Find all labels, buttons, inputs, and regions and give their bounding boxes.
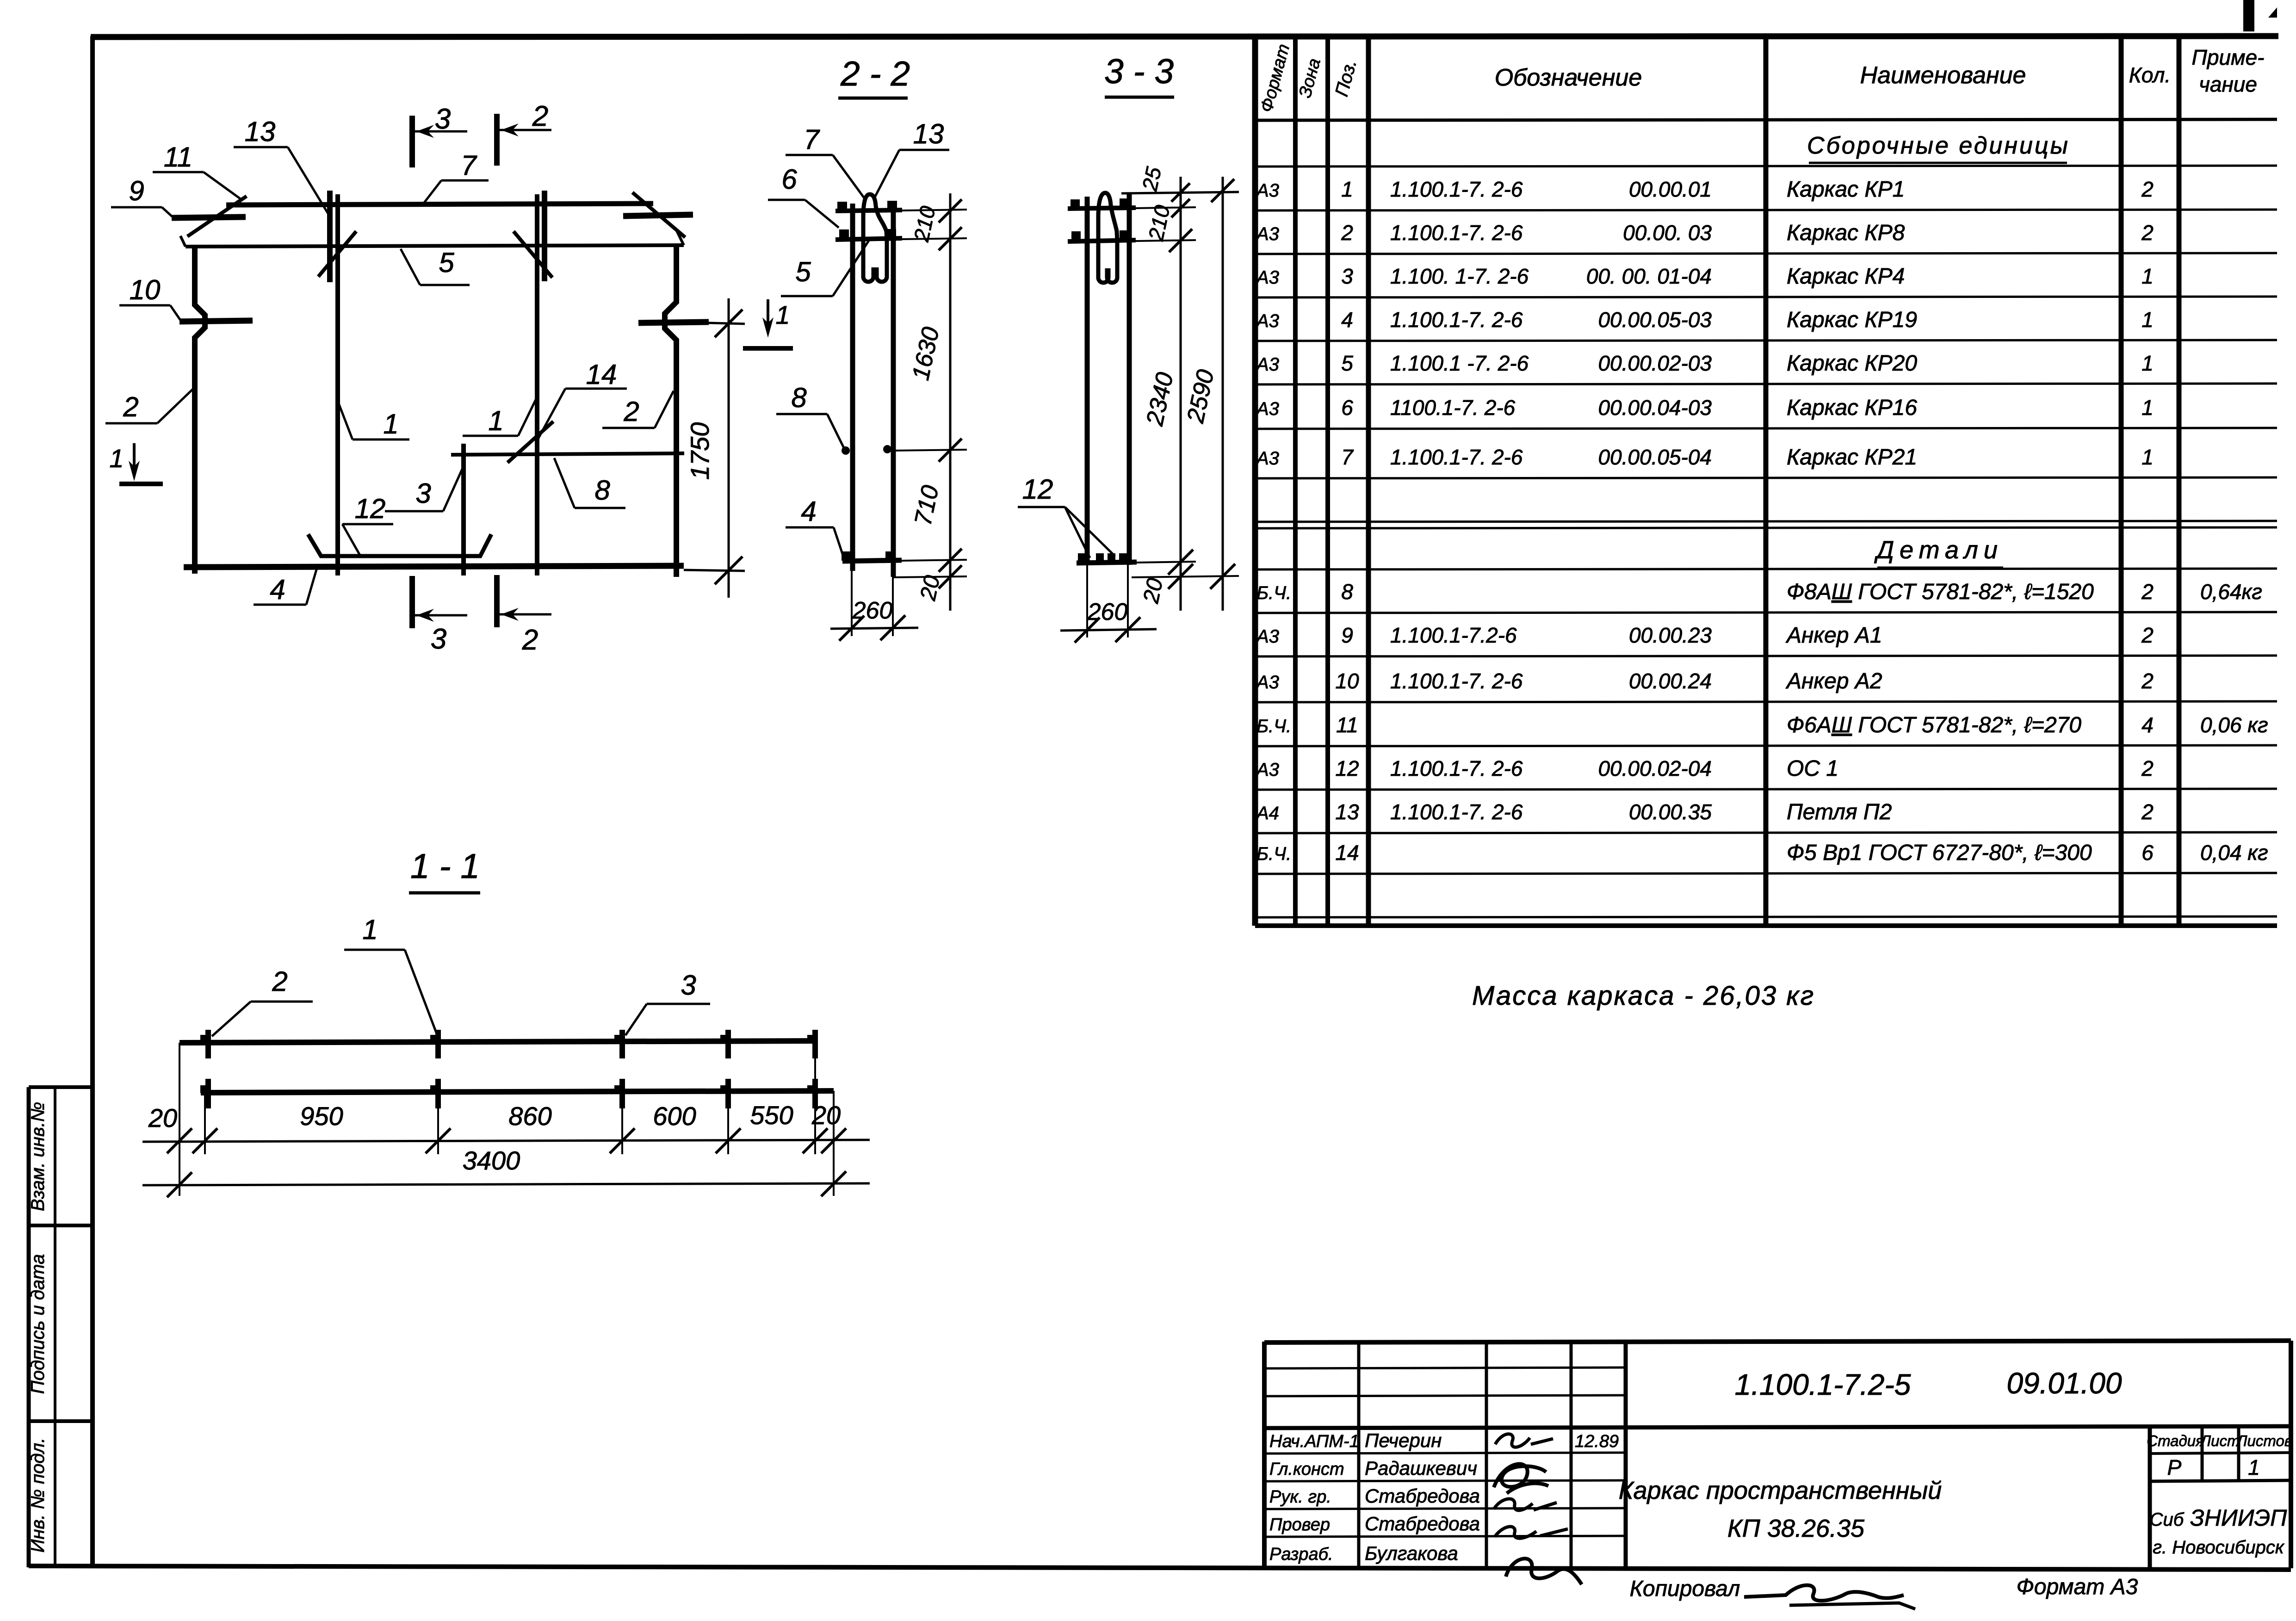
svg-text:1 - 1: 1 - 1: [410, 847, 480, 885]
copier signature: [1744, 1585, 1915, 1609]
svg-text:2: 2: [2141, 756, 2154, 780]
1-1 extension lines: [179, 1041, 834, 1196]
svg-text:0,04 кг: 0,04 кг: [2200, 841, 2268, 865]
svg-text:20: 20: [1139, 576, 1168, 606]
svg-text:14: 14: [1335, 841, 1359, 865]
svg-text:Анкер А2: Анкер А2: [1785, 669, 1882, 693]
svg-text:1.100.1-7. 2-6: 1.100.1-7. 2-6: [1390, 308, 1523, 332]
svg-text:А3: А3: [1256, 672, 1279, 693]
main view: right bar pos 2: [665, 245, 676, 577]
specification table grid: [1255, 36, 2277, 926]
table header labels: [1257, 42, 2265, 115]
leader label 10: [119, 274, 180, 320]
svg-text:А3: А3: [1256, 224, 1279, 244]
leader label 1-1 pos3: [625, 970, 710, 1035]
svg-text:Подпись и дата: Подпись и дата: [28, 1254, 48, 1394]
svg-text:00.00.24: 00.00.24: [1629, 669, 1712, 693]
leader label 1 internal left: [339, 403, 409, 439]
title block horizontals: [1264, 1367, 2291, 1537]
svg-text:13: 13: [1335, 800, 1359, 824]
svg-text:1.100.1 -7. 2-6: 1.100.1 -7. 2-6: [1390, 351, 1529, 375]
svg-text:2: 2: [272, 966, 287, 997]
svg-text:Петля П2: Петля П2: [1787, 800, 1892, 824]
svg-text:6: 6: [1341, 396, 1353, 420]
signatures: [1494, 1434, 1582, 1584]
table row pos 1: [1256, 177, 2154, 202]
svg-text:Б.Ч.: Б.Ч.: [1256, 583, 1291, 603]
leader label 2-2 pos5: [781, 241, 869, 296]
caption Сборочные единицы: [1807, 132, 2070, 163]
2-2 top plate: [835, 210, 902, 211]
svg-text:Листов: Листов: [2236, 1432, 2292, 1449]
view 1-1 title: [409, 847, 480, 893]
svg-text:12: 12: [1022, 474, 1053, 505]
svg-text:Гл.конст: Гл.конст: [1269, 1460, 1344, 1479]
leader label 4: [254, 568, 317, 605]
title block verticals: [1359, 1342, 2239, 1568]
svg-text:1.100. 1-7. 2-6: 1.100. 1-7. 2-6: [1390, 264, 1529, 288]
svg-text:Провер: Провер: [1269, 1515, 1330, 1534]
svg-text:00.00.02-04: 00.00.02-04: [1598, 756, 1712, 780]
svg-text:260: 260: [852, 597, 893, 624]
left box top line: [29, 1085, 93, 1089]
2-2 second plate: [835, 238, 902, 240]
table row pos 7: [1256, 445, 2154, 470]
svg-text:00.00.04-03: 00.00.04-03: [1598, 396, 1712, 420]
title block outer frame: [1264, 1341, 2291, 1568]
svg-text:25: 25: [1137, 165, 1166, 193]
section mark 2 bottom: [497, 575, 551, 656]
svg-text:8: 8: [1341, 580, 1353, 604]
leader label 2 right: [602, 391, 674, 428]
svg-text:2: 2: [2141, 669, 2154, 693]
svg-text:3 - 3: 3 - 3: [1104, 52, 1174, 91]
svg-text:1: 1: [362, 914, 378, 945]
main view: slash pos 14: [507, 421, 553, 463]
svg-text:20: 20: [916, 573, 945, 603]
svg-text:5: 5: [1341, 351, 1353, 375]
svg-text:00.00.01: 00.00.01: [1629, 177, 1712, 201]
section mark 1 right: [743, 299, 793, 348]
pos5 right end tick: [676, 230, 684, 245]
2-2 right bar: [891, 202, 896, 577]
main view: spacer OC1 pos 12: [308, 534, 491, 556]
svg-text:5: 5: [439, 247, 454, 278]
3-3 loop hook marks on plate: [1078, 553, 1086, 561]
1-1 transverse bar 3: [614, 1030, 622, 1108]
leader label 2 left: [105, 389, 193, 423]
svg-text:260: 260: [1087, 599, 1128, 625]
svg-text:00.00.05-04: 00.00.05-04: [1598, 445, 1712, 469]
svg-text:13: 13: [913, 118, 944, 149]
svg-text:Каркас пространственный: Каркас пространственный: [1619, 1477, 1942, 1504]
svg-text:1: 1: [2141, 396, 2154, 420]
main view: anchor pos 9 right: [623, 215, 693, 216]
main view: top bar pos 7: [226, 204, 653, 205]
title block row Провер: [1269, 1513, 1480, 1534]
frame top border: [91, 36, 2278, 37]
svg-text:6: 6: [781, 164, 797, 195]
svg-text:1: 1: [2248, 1455, 2260, 1479]
1-1 transverse bar 2: [430, 1030, 438, 1108]
svg-text:14: 14: [586, 359, 617, 390]
svg-text:Булгакова: Булгакова: [1365, 1542, 1458, 1564]
svg-text:2: 2: [1341, 221, 1353, 245]
corner mark top right: [2249, 0, 2277, 31]
2-2 left bar: [850, 204, 855, 571]
svg-text:А3: А3: [1256, 311, 1279, 331]
svg-text:20: 20: [148, 1103, 177, 1132]
svg-text:5: 5: [795, 256, 811, 287]
svg-text:Копировал: Копировал: [1630, 1577, 1740, 1601]
svg-text:Взам. инв.№: Взам. инв.№: [28, 1102, 48, 1211]
svg-text:3: 3: [435, 103, 451, 135]
leader label 2-2 pos13: [874, 118, 949, 198]
svg-text:2: 2: [522, 624, 538, 656]
svg-text:3: 3: [415, 478, 431, 509]
svg-text:Ф6АШ ГОСТ 5781-82*, ℓ=270: Ф6АШ ГОСТ 5781-82*, ℓ=270: [1787, 713, 2081, 737]
svg-text:Каркас КР4: Каркас КР4: [1787, 264, 1905, 289]
table row pos 5: [1256, 351, 2154, 376]
svg-text:А3: А3: [1256, 448, 1279, 469]
svg-text:2: 2: [2141, 177, 2154, 201]
weld slash left internal: [318, 231, 356, 277]
svg-text:7: 7: [804, 124, 820, 155]
svg-text:00. 00. 01-04: 00. 00. 01-04: [1586, 264, 1712, 288]
svg-text:00.00.05-03: 00.00.05-03: [1598, 308, 1712, 332]
svg-text:А3: А3: [1256, 354, 1279, 375]
main view: wire pos 8: [451, 453, 684, 455]
svg-text:1.100.1-7. 2-6: 1.100.1-7. 2-6: [1390, 669, 1523, 693]
svg-text:А3: А3: [1256, 399, 1279, 419]
left margin boxes outer edge: [27, 1087, 31, 1567]
svg-text:7: 7: [1341, 445, 1354, 469]
leader label 1-1 pos2: [212, 966, 313, 1036]
2-2 dimension chain 210/1630/710/20: [893, 193, 967, 611]
organisation СибЗНИИЭП: [2150, 1505, 2288, 1558]
svg-text:1: 1: [775, 300, 790, 329]
svg-text:1100.1-7. 2-6: 1100.1-7. 2-6: [1390, 396, 1516, 420]
2-2 wire dots pos8: [842, 446, 850, 455]
leader label 3-3 pos12: [1018, 474, 1115, 558]
svg-text:2: 2: [2141, 800, 2154, 824]
leader label 2-2 pos7: [786, 124, 866, 200]
svg-text:9: 9: [129, 175, 144, 206]
pos5 left end tick: [180, 236, 186, 247]
main view: anchor pos 10 right: [638, 322, 709, 323]
leader label 3: [385, 468, 463, 511]
svg-text:А3: А3: [1256, 626, 1279, 647]
svg-text:г. Новосибирск: г. Новосибирск: [2153, 1537, 2285, 1558]
svg-text:1.100.1-7. 2-6: 1.100.1-7. 2-6: [1390, 445, 1523, 469]
table row pos 2: [1256, 221, 2154, 245]
svg-text:Нач.АПМ-1: Нач.АПМ-1: [1269, 1432, 1359, 1451]
svg-text:А3: А3: [1256, 267, 1279, 288]
svg-text:Б.Ч.: Б.Ч.: [1256, 716, 1291, 736]
svg-text:9: 9: [1341, 623, 1353, 647]
svg-text:600: 600: [653, 1101, 696, 1131]
3-3 lifting loop pos13: [1098, 193, 1117, 241]
1-1 top bar: [179, 1041, 815, 1043]
svg-text:Лист: Лист: [2200, 1432, 2240, 1449]
svg-text:1: 1: [109, 444, 124, 473]
svg-text:Кол.: Кол.: [2129, 63, 2171, 87]
svg-text:2: 2: [623, 396, 639, 427]
svg-text:Каркас КР8: Каркас КР8: [1787, 221, 1905, 245]
svg-text:10: 10: [130, 274, 161, 305]
leader label 2-2 pos8: [776, 382, 844, 448]
svg-text:00.00.02-03: 00.00.02-03: [1598, 351, 1712, 375]
section mark 1 left: [109, 443, 163, 484]
svg-text:2: 2: [2141, 580, 2154, 604]
main view: top wire pos 5: [186, 245, 684, 247]
1-1 transverse bar 5: [807, 1030, 815, 1108]
leader label 8: [554, 458, 625, 508]
2-2 anchor squares: [837, 202, 847, 211]
leader label 11: [153, 142, 241, 199]
frame left border: [90, 36, 95, 1567]
svg-text:6: 6: [2141, 841, 2154, 865]
svg-text:4: 4: [2141, 713, 2154, 737]
svg-text:2: 2: [123, 391, 138, 422]
table row pos 13: [1256, 800, 2154, 824]
weld slash right internal: [514, 231, 552, 278]
svg-text:20: 20: [811, 1101, 841, 1130]
table row pos 9: [1256, 623, 2154, 648]
svg-text:10: 10: [1335, 669, 1359, 693]
svg-text:Рук. гр.: Рук. гр.: [1269, 1487, 1331, 1507]
svg-text:0,06 кг: 0,06 кг: [2200, 713, 2268, 737]
svg-text:2: 2: [532, 100, 548, 132]
svg-text:550: 550: [750, 1101, 793, 1130]
1-1 dimension row 20/950/860/600/550/20: [142, 1101, 870, 1153]
title block row Гл.конст: [1269, 1457, 1477, 1479]
table row pos 12: [1256, 756, 2154, 781]
3-3 second plate: [1068, 240, 1136, 241]
leader label 13: [234, 116, 330, 217]
svg-text:13: 13: [245, 116, 276, 147]
leader label 12: [342, 493, 393, 555]
svg-text:3: 3: [1341, 264, 1353, 288]
3-3 bottom plate pos4: [1077, 562, 1137, 563]
section mark 3 top: [412, 103, 467, 167]
table row pos 14: [1256, 841, 2268, 865]
leader label 14: [536, 359, 627, 443]
svg-text:12: 12: [355, 493, 386, 524]
title block row Разраб.: [1269, 1542, 1458, 1564]
svg-text:1: 1: [1341, 177, 1353, 201]
main view: bar pos 3: [461, 444, 466, 575]
svg-text:8: 8: [791, 382, 807, 413]
svg-text:09.01.00: 09.01.00: [2006, 1367, 2122, 1400]
svg-text:Стадия: Стадия: [2147, 1432, 2204, 1449]
1-1 transverse bar 4: [720, 1030, 728, 1108]
svg-text:12: 12: [1335, 756, 1359, 780]
svg-text:12.89: 12.89: [1575, 1432, 1619, 1451]
left box divider 2: [29, 1419, 93, 1423]
svg-text:3: 3: [431, 623, 446, 655]
stage header Стадия Лист Листов: [2147, 1432, 2292, 1449]
svg-text:Каркас КР16: Каркас КР16: [1787, 396, 1917, 420]
svg-text:Наименование: Наименование: [1860, 62, 2026, 89]
svg-text:Детали: Детали: [1874, 536, 2003, 564]
2-2 lifting loop pos13: [863, 194, 887, 241]
1-1 transverse bar 1: [200, 1030, 208, 1108]
main view: loop leg pos 13 left: [327, 191, 333, 282]
svg-text:1.100.1-7. 2-6: 1.100.1-7. 2-6: [1390, 756, 1523, 780]
svg-text:1.100.1-7.2-5: 1.100.1-7.2-5: [1735, 1368, 1911, 1401]
svg-text:Стабредова: Стабредова: [1365, 1485, 1480, 1507]
svg-text:Каркас КР20: Каркас КР20: [1787, 351, 1917, 376]
title block row Нач.АПМ-1: [1269, 1429, 1619, 1451]
svg-text:1750: 1750: [685, 422, 714, 480]
leader label 1 internal right: [463, 399, 536, 436]
3-3 top plate: [1068, 208, 1136, 209]
leader label 9: [111, 175, 172, 217]
dimension 1750: [684, 298, 745, 598]
leader label 5: [401, 247, 470, 285]
svg-text:00.00.35: 00.00.35: [1629, 800, 1712, 824]
left box divider 1: [29, 1224, 93, 1227]
svg-text:А4: А4: [1256, 803, 1279, 823]
svg-text:ОС 1: ОС 1: [1787, 756, 1838, 781]
svg-text:А3: А3: [1256, 760, 1279, 780]
table row pos 3: [1256, 264, 2154, 289]
table row pos 6: [1256, 396, 2154, 420]
svg-text:чание: чание: [2199, 72, 2257, 96]
svg-text:7: 7: [461, 150, 477, 181]
3-3 dimension 260: [1060, 565, 1157, 643]
title block row Рук. гр.: [1269, 1485, 1480, 1507]
svg-text:Инв. № подл.: Инв. № подл.: [28, 1438, 48, 1553]
svg-text:1.100.1-7. 2-6: 1.100.1-7. 2-6: [1390, 221, 1523, 245]
section mark 2 top: [497, 100, 551, 166]
svg-text:Сборочные единицы: Сборочные единицы: [1807, 132, 2070, 159]
svg-text:А3: А3: [1256, 180, 1279, 201]
1-1 bottom bar: [201, 1091, 834, 1093]
svg-text:1.100.1-7. 2-6: 1.100.1-7. 2-6: [1390, 177, 1523, 201]
svg-text:Приме-: Приме-: [2192, 45, 2265, 69]
svg-text:Обозначение: Обозначение: [1495, 64, 1642, 91]
svg-text:2: 2: [2141, 221, 2154, 245]
svg-text:11: 11: [1336, 713, 1358, 737]
svg-text:Ф5 Вр1 ГОСТ 6727-80*, ℓ=300: Ф5 Вр1 ГОСТ 6727-80*, ℓ=300: [1787, 841, 2092, 865]
table row pos 4: [1256, 308, 2154, 332]
caption Детали: [1874, 536, 2003, 568]
left margin boxes divider: [54, 1087, 56, 1567]
svg-text:4: 4: [270, 574, 285, 605]
3-3 right bar: [1127, 193, 1132, 565]
svg-text:950: 950: [300, 1101, 343, 1131]
svg-text:2: 2: [2141, 623, 2154, 647]
svg-text:860: 860: [508, 1101, 551, 1131]
svg-text:1: 1: [2141, 351, 2154, 375]
svg-text:Каркас КР1: Каркас КР1: [1787, 177, 1905, 202]
section mark 3 bottom: [412, 576, 467, 655]
svg-text:4: 4: [1341, 308, 1353, 332]
main view: slash pos 11 right: [632, 192, 685, 237]
main view: internal bar pos 1 left: [335, 194, 340, 575]
1-1 dimension 3400: [142, 1146, 870, 1197]
main view: bottom bar pos 4: [184, 566, 684, 567]
svg-text:Р: Р: [2167, 1455, 2182, 1479]
svg-text:00.00.23: 00.00.23: [1629, 623, 1712, 647]
main view: anchor pos 10 left: [179, 321, 253, 322]
svg-text:8: 8: [594, 475, 610, 506]
svg-text:00.00. 03: 00.00. 03: [1623, 221, 1712, 245]
svg-text:1: 1: [2141, 445, 2154, 469]
svg-text:1.100.1-7. 2-6: 1.100.1-7. 2-6: [1390, 800, 1523, 824]
section 2-2 title: [838, 54, 910, 98]
svg-text:11: 11: [164, 142, 192, 173]
svg-text:1: 1: [488, 405, 503, 436]
svg-text:Б.Ч.: Б.Ч.: [1256, 844, 1291, 864]
table row pos 11: [1256, 713, 2268, 737]
svg-text:Масса каркаса - 26,03 кг: Масса каркаса - 26,03 кг: [1472, 981, 1815, 1011]
svg-text:Каркас КР19: Каркас КР19: [1787, 308, 1917, 332]
svg-text:Стабредова: Стабредова: [1365, 1513, 1480, 1534]
svg-text:1: 1: [383, 408, 398, 439]
svg-text:Радашкевич: Радашкевич: [1365, 1457, 1477, 1479]
svg-text:Печерин: Печерин: [1365, 1429, 1442, 1451]
leader label 2-2 pos6: [768, 164, 839, 228]
svg-text:Разраб.: Разраб.: [1269, 1545, 1333, 1564]
svg-text:4: 4: [801, 496, 816, 527]
svg-text:1: 1: [2141, 264, 2154, 288]
leader label 7: [422, 150, 489, 205]
2-2 dimension 260: [830, 571, 918, 641]
svg-text:3: 3: [681, 970, 696, 1001]
3-3 dimension chain 25/210/2340/2590: [1121, 165, 1239, 611]
main view: internal bar pos 1 right: [535, 194, 539, 575]
3-3 anchor squares: [1071, 199, 1080, 209]
svg-text:КП 38.26.35: КП 38.26.35: [1727, 1515, 1865, 1542]
leader label 1-1 pos1: [344, 914, 438, 1036]
svg-text:Анкер А1: Анкер А1: [1785, 623, 1882, 648]
svg-text:2 - 2: 2 - 2: [840, 54, 910, 93]
table row pos 8: [1256, 580, 2262, 604]
svg-text:Каркас КР21: Каркас КР21: [1787, 445, 1917, 470]
svg-text:1: 1: [2141, 308, 2154, 332]
3-3 left bar: [1085, 197, 1090, 565]
svg-text:0,64кг: 0,64кг: [2200, 580, 2262, 604]
svg-text:Формат А3: Формат А3: [2017, 1575, 2138, 1599]
leader label 2-2 pos4: [786, 496, 844, 558]
main view: loop leg pos 13 right: [542, 191, 547, 281]
main view: anchor pos 9 left: [172, 217, 246, 218]
frame bottom border: [29, 1566, 2291, 1570]
2-2 bottom plate pos4: [842, 560, 902, 561]
svg-text:Ф8АШ ГОСТ 5781-82*, ℓ=1520: Ф8АШ ГОСТ 5781-82*, ℓ=1520: [1787, 580, 2094, 604]
svg-text:1.100.1-7.2-6: 1.100.1-7.2-6: [1390, 623, 1517, 647]
svg-text:3400: 3400: [463, 1146, 520, 1175]
main view: slash pos 11 left: [187, 196, 247, 236]
section 3-3 title: [1104, 52, 1174, 97]
table row pos 10: [1256, 669, 2154, 693]
main view: left bar pos 2: [195, 247, 205, 574]
